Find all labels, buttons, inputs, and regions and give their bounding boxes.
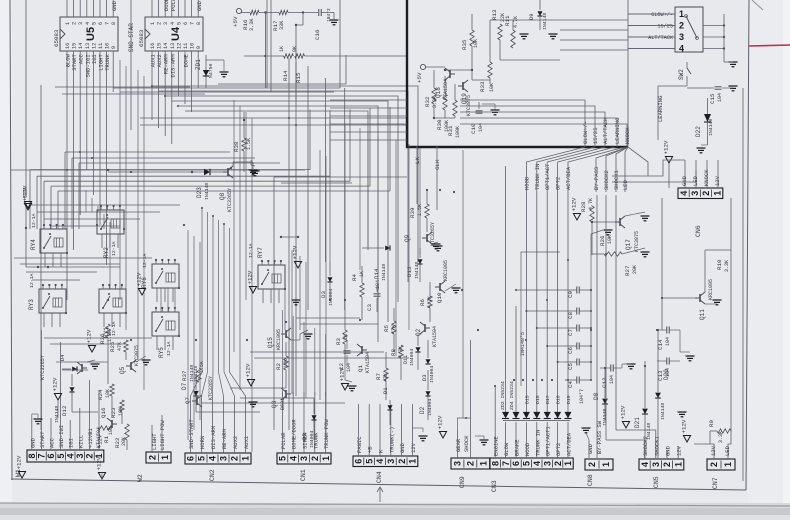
svg-text:8: 8: [196, 22, 202, 25]
wire R14 R15 line: [244, 55, 284, 57]
svg-text:R10: R10: [716, 259, 723, 270]
svg-text:R26: R26: [599, 235, 606, 246]
svg-text:+12V: +12V: [571, 197, 578, 211]
svg-text:2: 2: [72, 22, 78, 25]
svg-text:IGI: IGI: [68, 438, 75, 448]
svg-text:R11: R11: [504, 15, 511, 26]
svg-text:4: 4: [170, 22, 176, 25]
svg-text:4: 4: [288, 456, 298, 461]
wire cap bank feeds left: [516, 289, 565, 291]
svg-text:LIGHT POW: LIGHT POW: [159, 420, 166, 450]
relay RY5 12-1A: [152, 312, 179, 336]
svg-text:2: 2: [157, 22, 163, 25]
svg-text:104*7: 104*7: [579, 389, 585, 404]
relay RY2 12-1A: [97, 210, 124, 234]
ground CN8: [582, 428, 591, 433]
svg-text:6: 6: [98, 22, 104, 25]
ground CN4: [419, 436, 428, 441]
svg-text:R37: R37: [181, 370, 188, 381]
wire switch right common: [703, 25, 724, 27]
svg-text:GND: GND: [587, 443, 594, 454]
svg-text:11: 11: [183, 43, 189, 49]
wire cap bank right bus: [590, 290, 592, 380]
svg-text:100K: 100K: [455, 126, 461, 138]
power +12V relays: [138, 289, 145, 296]
svg-text:3: 3: [651, 462, 661, 467]
resistor R13 22K: [498, 24, 502, 40]
svg-text:8: 8: [27, 453, 37, 458]
diode D8 IN4148: [602, 399, 608, 404]
svg-text:GND: GND: [681, 175, 688, 186]
transistor Q17 KTC3875: [615, 216, 625, 228]
svg-text:5: 5: [522, 461, 532, 466]
svg-text:R7: R7: [375, 373, 382, 380]
svg-text:Q10: Q10: [436, 292, 443, 303]
svg-text:12: 12: [176, 43, 182, 49]
power +12V W1 right: [98, 473, 105, 480]
capacitor C12 104: [611, 365, 613, 372]
svg-text:R17: R17: [272, 20, 279, 31]
power +12V W1 left: [18, 472, 25, 479]
svg-text:Q7: Q7: [184, 397, 191, 404]
wire y177 into box: [274, 176, 407, 178]
svg-text:D7: D7: [181, 382, 188, 390]
svg-text:12V: 12V: [410, 442, 417, 453]
svg-text:D9: D9: [528, 13, 535, 20]
power +12V CN9: [439, 432, 446, 439]
svg-text:D20: D20: [663, 369, 670, 380]
svg-text:KTA1504: KTA1504: [432, 326, 438, 347]
svg-text:GLK: GLK: [434, 159, 441, 170]
svg-text:R35: R35: [461, 39, 468, 50]
svg-text:KTC3875: KTC3875: [634, 231, 640, 252]
svg-text:4: 4: [532, 461, 542, 466]
wire +12V rail under RY4: [25, 204, 27, 267]
power +12V CN5: [622, 422, 629, 429]
svg-text:10K: 10K: [489, 83, 495, 92]
IC U5: [60, 17, 118, 51]
svg-text:DOME/DOOR: DOME/DOOR: [291, 419, 298, 449]
svg-text:1: 1: [160, 455, 170, 460]
svg-text:TRUNK(-): TRUNK(-): [388, 427, 395, 453]
svg-text:Q9: Q9: [404, 234, 411, 242]
svg-text:Q2: Q2: [415, 328, 422, 336]
svg-text:R39: R39: [409, 207, 416, 218]
svg-text:GLOW+/-: GLOW+/-: [651, 12, 673, 18]
diode D14 IN4148: [385, 245, 390, 250]
svg-text:KTC3875: KTC3875: [466, 95, 472, 116]
svg-text:KTA1504: KTA1504: [365, 352, 371, 373]
svg-text:Q11: Q11: [699, 309, 706, 320]
wire ACT/DEA column down: [567, 192, 569, 386]
svg-text:4: 4: [640, 462, 650, 467]
svg-text:8: 8: [111, 22, 117, 25]
diode D20 IN4148: [655, 393, 661, 398]
svg-text:+12V: +12V: [22, 185, 29, 199]
svg-text:R15: R15: [295, 72, 302, 83]
diode row ZD3 ZD4 D15 D16 D17 D18 D19: [502, 412, 509, 419]
svg-text:+12V: +12V: [86, 329, 93, 343]
svg-text:Q8: Q8: [219, 192, 226, 200]
svg-text:N4750: N4750: [208, 63, 214, 78]
selector switch box: [675, 7, 703, 52]
svg-text:+12V: +12V: [245, 363, 252, 377]
ground CN9: [480, 440, 489, 445]
schematic left border: [10, 0, 12, 480]
svg-text:R1: R1: [103, 436, 110, 443]
svg-text:2: 2: [466, 461, 476, 466]
svg-text:CN4: CN4: [376, 471, 383, 483]
svg-text:4: 4: [679, 44, 684, 54]
connector CN2: [185, 453, 251, 464]
resistor R14 1K: [284, 54, 294, 58]
svg-text:R4: R4: [351, 274, 358, 281]
svg-text:RY2: RY2: [103, 247, 110, 258]
svg-text:12-1A: 12-1A: [29, 273, 35, 288]
svg-text:SND-STAR: SND-STAR: [128, 23, 135, 52]
svg-text:GND: GND: [111, 0, 118, 11]
svg-text:10K: 10K: [473, 39, 479, 48]
ground Q9: [434, 246, 443, 251]
svg-text:CN6: CN6: [695, 225, 702, 237]
svg-text:104: 104: [665, 337, 671, 346]
capacitor bank C4-C9: [577, 287, 579, 294]
svg-text:16: 16: [150, 43, 156, 49]
svg-text:U4: U4: [170, 26, 182, 41]
svg-text:AUX2: AUX2: [232, 436, 239, 449]
svg-text:R9: R9: [708, 420, 715, 427]
svg-text:ACT/DEA: ACT/DEA: [566, 432, 573, 456]
ground C14: [686, 356, 695, 361]
svg-text:3: 3: [453, 461, 463, 466]
svg-text:IN4004: IN4004: [429, 366, 435, 383]
svg-text:D2: D2: [419, 406, 426, 414]
svg-text:+12V: +12V: [681, 419, 688, 433]
svg-text:3: 3: [163, 22, 169, 25]
svg-text:KILL: KILL: [77, 435, 84, 448]
svg-text:5: 5: [364, 459, 374, 464]
svg-text:12-1A: 12-1A: [142, 253, 148, 268]
wire CN6 feeds: [612, 160, 685, 176]
svg-text:4: 4: [679, 191, 689, 196]
svg-text:C10: C10: [470, 123, 477, 134]
svg-text:D21: D21: [634, 417, 641, 428]
svg-text:3: 3: [219, 456, 229, 461]
junction dots mesh extra: [66, 169, 68, 171]
svg-text:D8: D8: [593, 392, 600, 400]
svg-text:13: 13: [170, 43, 176, 49]
transistor Q8 KTC3265Y: [223, 166, 233, 178]
svg-text:ALT/TACK: ALT/TACK: [648, 35, 674, 41]
svg-text:SW2: SW2: [678, 69, 685, 80]
svg-text:KTC3265Y: KTC3265Y: [40, 354, 46, 380]
wire lower-left mesh: [107, 338, 109, 384]
svg-text:LED: LED: [692, 175, 699, 186]
svg-text:LEARNING: LEARNING: [614, 118, 621, 144]
svg-text:5: 5: [176, 22, 182, 25]
svg-text:CN8: CN8: [587, 474, 594, 486]
wire mid long horizontals lower: [296, 317, 360, 319]
svg-text:CN2: CN2: [209, 469, 216, 481]
svg-text:TRUNK: TRUNK: [104, 54, 111, 71]
transistor Q5 KTC3075: [126, 360, 136, 372]
svg-text:IN4148: IN4148: [204, 183, 210, 200]
svg-text:12V: 12V: [710, 445, 717, 456]
svg-text:12-1A: 12-1A: [248, 243, 254, 258]
svg-text:+12V: +12V: [96, 456, 103, 470]
wire CN2 bundle verticals: [191, 208, 203, 396]
svg-text:OPT1/ACT1: OPT1/ACT1: [545, 426, 552, 456]
svg-text:RY7: RY7: [257, 247, 264, 258]
capacitor C10 104: [476, 111, 483, 113]
svg-text:R30: R30: [436, 119, 443, 130]
svg-text:GND: GND: [665, 445, 672, 456]
ground KT upper: [432, 244, 441, 249]
svg-text:1: 1: [601, 462, 611, 467]
svg-text:3: 3: [299, 456, 309, 461]
resistor R17 33K: [279, 10, 288, 14]
transistor Q15 KRC1095: [281, 328, 291, 340]
svg-text:HOOD: HOOD: [524, 442, 531, 456]
svg-text:10K: 10K: [607, 235, 613, 244]
scanner band bottom: [0, 503, 790, 515]
wire box internals: [445, 69, 472, 71]
svg-text:R32: R32: [424, 96, 431, 107]
svg-text:1K: 1K: [279, 46, 285, 52]
svg-text:BY-PASS: BY-PASS: [593, 166, 600, 190]
wire OPT1 column down: [546, 192, 548, 386]
power +12V Q3: [294, 262, 301, 269]
ground Q15: [304, 334, 313, 339]
svg-text:2: 2: [230, 456, 240, 461]
svg-text:5: 5: [278, 456, 288, 461]
svg-text:HORN: HORN: [199, 436, 206, 449]
connector CN1: [277, 453, 331, 464]
connector CN6: [678, 188, 723, 199]
svg-text:ALT/TACK: ALT/TACK: [602, 117, 609, 144]
svg-text:5: 5: [56, 453, 66, 458]
svg-text:1: 1: [65, 22, 71, 25]
svg-text:11: 11: [98, 43, 104, 49]
svg-text:R33: R33: [479, 81, 486, 92]
svg-text:104: 104: [609, 375, 615, 384]
resistor R33 10K: [488, 62, 492, 78]
svg-text:2: 2: [709, 462, 719, 467]
svg-text:6: 6: [511, 461, 521, 466]
svg-text:Q3: Q3: [271, 400, 278, 408]
connector CN8: [585, 459, 613, 470]
svg-text:R27: R27: [624, 265, 631, 276]
svg-text:CN5: CN5: [653, 476, 660, 488]
svg-text:65083: 65083: [53, 29, 60, 47]
svg-text:8: 8: [490, 461, 500, 466]
wire relay staircase2: [65, 151, 230, 153]
svg-text:3: 3: [78, 22, 84, 25]
ground C10: [491, 110, 500, 115]
svg-text:R3: R3: [335, 338, 342, 345]
svg-text:6: 6: [183, 22, 189, 25]
svg-text:Q1: Q1: [357, 365, 364, 372]
svg-text:OPT1/ACT: OPT1/ACT: [544, 163, 551, 190]
svg-text:SND-IGI: SND-IGI: [58, 425, 65, 448]
transistor Q18 KTA1504: [445, 68, 455, 80]
svg-text:12: 12: [91, 43, 97, 49]
ground box mid: [549, 34, 558, 39]
resistor R16 3.3K: [250, 10, 259, 14]
resistor R15 9K: [295, 54, 305, 58]
svg-text:START: START: [39, 431, 46, 448]
wire relay cluster verticals: [160, 288, 162, 312]
diode D9 IN4148 top: [537, 11, 542, 16]
svg-text:5: 5: [197, 456, 207, 461]
diode row common bus: [503, 420, 570, 422]
diode D23 IN4148: [204, 169, 210, 175]
svg-text:POLAR: POLAR: [280, 432, 287, 449]
svg-text:ZD4 IN5234: ZD4 IN5234: [509, 381, 515, 410]
ground R27: [641, 252, 650, 257]
svg-text:IN4148: IN4148: [414, 262, 420, 279]
svg-text:3: 3: [386, 459, 396, 464]
svg-text:D18: D18: [556, 395, 562, 404]
power +12V C2: [341, 384, 348, 391]
diode D22 IN4148: [657, 86, 659, 140]
transistor Q19 KTC3875: [458, 80, 468, 92]
ground D4: [91, 364, 100, 369]
svg-text:15: 15: [157, 43, 163, 49]
svg-text:GLOW: GLOW: [503, 442, 510, 456]
ground mid y169: [251, 171, 260, 176]
connector CN3: [490, 458, 573, 469]
svg-text:+12V: +12V: [16, 455, 23, 469]
svg-text:SHOCK: SHOCK: [463, 435, 470, 452]
relay RY3 12-1A: [39, 289, 66, 313]
svg-text:D1: D1: [382, 387, 389, 394]
diode D3 IN4004: [425, 359, 430, 364]
svg-text:+12V: +12V: [136, 272, 143, 286]
svg-text:+5V: +5V: [232, 16, 239, 27]
svg-text:IN4148: IN4148: [708, 119, 714, 136]
ground R11: [520, 34, 529, 39]
svg-text:IN4148: IN4148: [660, 403, 666, 420]
relay RY1 12-1A: [99, 289, 126, 313]
svg-text:2: 2: [147, 455, 157, 460]
svg-text:4.7K: 4.7K: [513, 16, 519, 28]
wire switch feeds: [628, 13, 675, 15]
wire TRUNK IN column down: [536, 192, 538, 386]
wire long verticals from R14 R15: [288, 58, 290, 430]
wire long bus y125: [140, 124, 407, 126]
svg-text:D14: D14: [373, 268, 380, 279]
transistor Q9 KTC3265Y: [422, 232, 432, 244]
svg-text:20K: 20K: [632, 265, 638, 274]
svg-text:KTC3075: KTC3075: [134, 345, 140, 366]
svg-text:IN4148: IN4148: [54, 406, 60, 423]
wire mid long verticals: [329, 120, 331, 262]
wire relay cluster horizontals: [14, 257, 152, 259]
connector CN4: [353, 456, 418, 467]
wire U4 pin drops: [151, 55, 153, 120]
svg-text:ZD3 IN5234: ZD3 IN5234: [500, 381, 506, 410]
wire HOOD column down: [525, 192, 527, 386]
svg-text:TRUNK IN: TRUNK IN: [534, 430, 541, 456]
power +12V CN6: [665, 157, 672, 164]
svg-text:4: 4: [208, 456, 218, 461]
svg-text:Q5: Q5: [119, 366, 126, 374]
svg-text:1.5K: 1.5K: [246, 138, 252, 150]
resistor R11 4.7K: [511, 30, 515, 48]
svg-text:2: 2: [701, 191, 711, 196]
ground Q8: [249, 170, 258, 175]
svg-text:GEAR: GEAR: [455, 438, 462, 452]
svg-text:+12V: +12V: [247, 270, 254, 284]
svg-text:TRUNK IN: TRUNK IN: [534, 164, 541, 190]
svg-text:Q16: Q16: [100, 407, 107, 418]
svg-text:7: 7: [37, 453, 47, 458]
ground C12: [627, 364, 636, 369]
svg-text:R13: R13: [491, 9, 498, 20]
svg-text:IN4148: IN4148: [381, 264, 387, 281]
svg-text:12V: 12V: [676, 445, 683, 456]
svg-text:AUX1: AUX1: [243, 435, 250, 449]
paper edge line: [0, 503, 790, 506]
svg-text:3.3K: 3.3K: [724, 260, 730, 272]
svg-text:KTC3265Y: KTC3265Y: [430, 222, 436, 246]
svg-text:RY3: RY3: [28, 299, 35, 310]
wire center verticals: [119, 60, 121, 300]
svg-text:12-1A: 12-1A: [111, 241, 117, 256]
svg-text:6: 6: [354, 459, 364, 464]
svg-text:R36: R36: [99, 333, 106, 344]
svg-text:D15: D15: [524, 395, 530, 404]
schematic right border: [746, 0, 749, 490]
IC U4: [145, 17, 203, 51]
wire relay staircase: [30, 169, 310, 171]
svg-text:D19: D19: [566, 395, 572, 404]
wire long bus y118: [140, 117, 407, 119]
ground Q10: [452, 288, 461, 293]
power +12V R22 line: [247, 380, 254, 387]
svg-text:2: 2: [553, 461, 563, 466]
svg-text:Q15: Q15: [267, 337, 274, 348]
svg-text:15/25: 15/25: [592, 127, 599, 144]
svg-text:104: 104: [717, 93, 723, 102]
junction dots mid: [107, 169, 109, 171]
svg-text:9: 9: [196, 46, 202, 49]
resistor R32 3.3K: [432, 88, 436, 104]
capacitor C13 104: [667, 358, 669, 365]
svg-text:1: 1: [408, 459, 418, 464]
svg-text:DIS-ARM: DIS-ARM: [210, 426, 217, 449]
svg-text:3: 3: [690, 191, 700, 196]
svg-text:SHOCK2: SHOCK2: [603, 170, 610, 190]
svg-text:KNOCK: KNOCK: [624, 127, 631, 144]
svg-text:KRC1095: KRC1095: [708, 279, 714, 300]
svg-text:1: 1: [679, 9, 684, 19]
red registration mark: [749, 45, 790, 46]
svg-text:C3: C3: [366, 304, 373, 311]
svg-text:OPT2: OPT2: [555, 443, 562, 456]
svg-text:16: 16: [65, 43, 71, 49]
svg-text:R22: R22: [114, 437, 121, 448]
svg-text:Q17: Q17: [625, 239, 632, 250]
svg-text:R28: R28: [580, 201, 587, 212]
svg-text:+12VB1: +12VB1: [87, 427, 94, 448]
svg-text:C16: C16: [314, 29, 321, 40]
svg-text:TRUNK POW: TRUNK POW: [323, 419, 330, 449]
svg-text:D17: D17: [545, 395, 551, 404]
power +5V top rail: [236, 8, 241, 13]
svg-text:3: 3: [542, 461, 552, 466]
